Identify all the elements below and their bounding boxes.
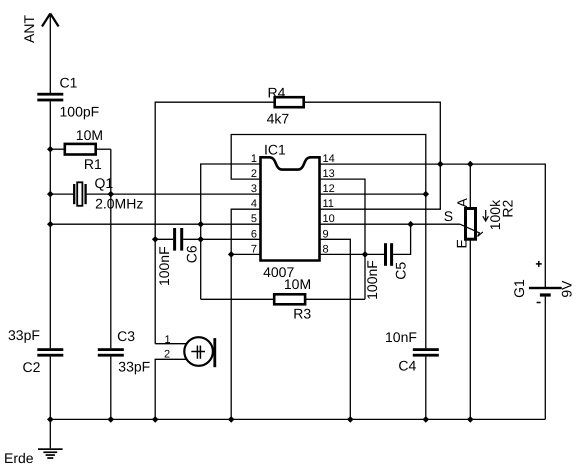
svg-text:6: 6	[251, 228, 257, 240]
wire: pin14 net horizontal to battery	[320, 164, 546, 287]
capacitor C2	[37, 348, 63, 356]
node: R4/pin11/pin14 junction	[437, 161, 444, 168]
node: pot top junction	[467, 161, 474, 168]
wire: C2 to ground rail	[49, 357, 51, 420]
wire: Q1 right lead to IC pin 3	[87, 193, 261, 195]
svg-text:C3: C3	[117, 328, 135, 344]
node: pin12/C4 junction	[423, 191, 430, 198]
node: rail/ground junction	[47, 416, 54, 423]
svg-text:9V: 9V	[558, 280, 574, 298]
wire: C1 to C2 left vertical	[49, 101, 51, 348]
wire: pin13 to R3 right vertical	[320, 179, 366, 299]
resistor R3	[274, 294, 305, 304]
svg-text:G1: G1	[511, 279, 527, 298]
wire: pin10 to potentiometer wiper	[320, 223, 461, 225]
capacitor C6	[173, 228, 183, 251]
svg-text:100nF: 100nF	[156, 246, 172, 286]
svg-text:C2: C2	[23, 359, 41, 375]
wire: top R4 line right segment down to pin14 net	[304, 102, 441, 164]
microphone MIC1 symbol	[184, 337, 216, 367]
svg-text:1: 1	[251, 153, 257, 165]
node: pin9 rail junction	[347, 416, 354, 423]
potentiometer R2 wiper diagonal	[460, 224, 483, 236]
antenna ANT symbol	[42, 14, 59, 27]
wire: microphone lead 2 and down to rail	[155, 359, 187, 419]
svg-text:33pF: 33pF	[118, 359, 150, 375]
svg-text:C1: C1	[60, 74, 78, 90]
svg-text:100pF: 100pF	[60, 104, 100, 120]
svg-text:E: E	[454, 239, 470, 248]
capacitor C4	[413, 348, 439, 356]
crystal Q1	[74, 182, 85, 206]
svg-text:5: 5	[251, 213, 257, 225]
battery G1 plates	[529, 287, 562, 297]
svg-text:A: A	[454, 197, 470, 207]
wire: C6 left stub	[155, 238, 173, 240]
capacitor C3	[98, 348, 124, 356]
svg-text:1: 1	[165, 334, 171, 346]
wire: vertical x=200.7 pin1 net	[201, 164, 261, 299]
wire: pin9 ground link	[320, 239, 351, 419]
wire: R3 right lead	[305, 298, 365, 300]
svg-text:R3: R3	[293, 306, 311, 322]
node: mic2 rail junction	[152, 416, 159, 423]
ground symbol (Erde)	[38, 448, 63, 459]
node: C3 rail junction	[108, 416, 115, 423]
wire: R3 left lead	[201, 298, 275, 300]
svg-text:10: 10	[323, 213, 335, 225]
potentiometer R2 body	[466, 209, 476, 240]
svg-text:4k7: 4k7	[267, 111, 290, 127]
node: Q1/pin3 junction	[108, 191, 115, 198]
wire: ground stem	[49, 419, 51, 448]
svg-text:C4: C4	[398, 358, 416, 374]
wire: top R4 line left segment	[155, 102, 275, 344]
svg-text:10M: 10M	[76, 127, 103, 143]
svg-text:100nF: 100nF	[364, 260, 380, 300]
svg-text:2: 2	[164, 349, 170, 361]
resistor R1	[65, 144, 96, 155]
svg-text:11: 11	[323, 198, 334, 210]
wire: bottom ground rail	[50, 418, 545, 420]
svg-text:ANT: ANT	[21, 15, 37, 43]
node: C6 left junction	[152, 236, 159, 243]
svg-text:Erde: Erde	[4, 450, 34, 466]
svg-text:IC1: IC1	[264, 142, 286, 158]
battery plus sign	[536, 261, 542, 267]
svg-text:4: 4	[251, 198, 257, 210]
wire: vertical x=110.8 from R1 down to C3	[110, 149, 112, 348]
svg-text:33pF: 33pF	[8, 327, 40, 343]
node: antenna/Q1 junction	[47, 191, 54, 198]
svg-text:R2: R2	[499, 200, 515, 218]
wire: pin7 stub	[231, 253, 260, 255]
wire: C4 to ground rail	[425, 357, 427, 420]
battery minus sign	[537, 302, 541, 304]
node: pin1/pin5 junction	[197, 221, 204, 228]
node: pin4 rail junction	[228, 416, 235, 423]
wire: potentiometer top lead	[469, 164, 471, 208]
node: pot bottom rail junction	[467, 416, 474, 423]
svg-text:C6: C6	[183, 245, 199, 263]
svg-text:2.0MHz: 2.0MHz	[95, 195, 143, 211]
wire: C6 right to IC pin 6	[183, 238, 260, 240]
svg-text:13: 13	[323, 168, 335, 180]
wire: antenna lead down to C1	[49, 14, 51, 94]
wire: microphone lead 1	[155, 343, 187, 345]
wire: pin4 ground link down	[231, 209, 260, 419]
svg-text:R1: R1	[84, 156, 102, 172]
svg-text:Q1: Q1	[95, 175, 114, 191]
svg-text:7: 7	[251, 243, 257, 255]
svg-text:S: S	[444, 208, 453, 224]
svg-text:10M: 10M	[284, 276, 311, 292]
wire: pin11 to R4 junction vertical	[320, 164, 441, 209]
potentiometer adjustment arrow	[483, 210, 489, 221]
wire: C3 to ground rail	[110, 357, 112, 420]
svg-text:8: 8	[323, 243, 329, 255]
wire: vertical x=425.8 down to C4	[425, 194, 427, 348]
wire: R1 left lead	[50, 148, 65, 150]
node: antenna/pin5 junction	[47, 221, 54, 228]
node: C4 rail junction	[423, 416, 430, 423]
capacitor C5	[384, 243, 393, 266]
svg-text:2: 2	[251, 168, 257, 180]
wire: C5 right up to pin10 net	[393, 224, 411, 254]
svg-text:3: 3	[251, 183, 257, 195]
svg-text:C5: C5	[393, 262, 409, 280]
svg-text:14: 14	[323, 153, 335, 165]
node: pin8/pin13 junction	[362, 251, 369, 258]
node: antenna/R1 junction	[47, 146, 54, 153]
wire: battery bottom to rail corner	[544, 297, 546, 420]
wire: R1 right lead to vertical	[96, 148, 111, 150]
svg-text:9: 9	[323, 228, 329, 240]
op-amp IC1 body (CD4007 DIP-14 outline with notch)	[261, 157, 320, 260]
resistor R4	[275, 97, 304, 107]
svg-text:10nF: 10nF	[385, 329, 417, 345]
wire: pin12 stub	[320, 193, 426, 195]
svg-text:12: 12	[323, 183, 335, 195]
capacitor C1	[37, 93, 63, 102]
node: C5/pin10 junction	[407, 221, 414, 228]
wire: Q1 left lead	[50, 193, 73, 195]
wire: pin5 net long horizontal	[50, 223, 260, 225]
wire: potentiometer bottom lead to rail	[469, 239, 471, 419]
svg-text:R4: R4	[268, 84, 286, 100]
node: pin7/ground link junction	[228, 251, 235, 258]
node: pin1/pin6 junction	[197, 236, 204, 243]
wire: pin2 to top link	[231, 135, 426, 195]
wire: pin8 stub to C5	[320, 253, 385, 255]
